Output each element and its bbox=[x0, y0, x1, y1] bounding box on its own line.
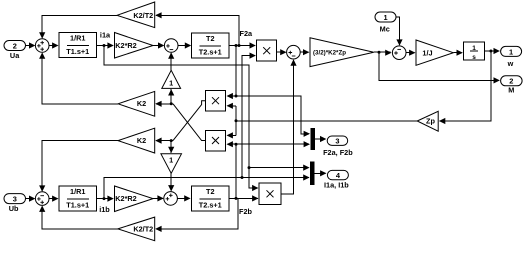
arrow into product XL input2 bbox=[227, 141, 233, 147]
svg-text:K2*R2: K2*R2 bbox=[115, 194, 137, 203]
wire w branch down to Zp bbox=[440, 51, 491, 121]
svg-text:T1.s+1: T1.s+1 bbox=[66, 47, 89, 56]
wire sum1a to TF1a bbox=[49, 45, 58, 47]
wire K2 lower output to sum1b top bbox=[42, 141, 118, 191]
arrow into triangle 1b bbox=[168, 147, 174, 153]
product X1 (F2a x i1b) bbox=[257, 40, 277, 61]
svg-text:M: M bbox=[508, 86, 514, 95]
product XU (upper middle) bbox=[206, 91, 226, 112]
node F2a branch up bbox=[238, 44, 241, 47]
wire Mc to sum4 top bbox=[396, 17, 400, 45]
product XB (bottom, F2b x i1a) bbox=[259, 183, 281, 205]
arrow into TF1b bbox=[52, 196, 58, 202]
svg-text:Zp: Zp bbox=[426, 117, 435, 126]
arrow into integrator bbox=[457, 50, 463, 56]
arrow into TF2a bbox=[185, 42, 191, 48]
wire F2b up branch bbox=[235, 144, 237, 198]
outport 4 (I1a, I1b) bbox=[327, 170, 348, 179]
wire crossing diagonal from product XL output up to upper line bbox=[173, 104, 206, 141]
arrow into product XL input1 bbox=[227, 132, 233, 138]
svg-text:Mc: Mc bbox=[380, 24, 390, 33]
wire K2 upper output to sum1a bottom bbox=[42, 54, 118, 104]
transfer fcn TF1a 1/R1 T1.s+1 bbox=[59, 33, 97, 58]
integrator 1/s bbox=[464, 42, 485, 60]
wire Ua to sum1a bbox=[26, 45, 35, 47]
svg-text:1: 1 bbox=[169, 155, 173, 164]
svg-text:T2: T2 bbox=[206, 34, 215, 43]
arrow into triangle 1a bbox=[168, 89, 174, 95]
wire sum2b to TF2b bbox=[177, 197, 189, 199]
transfer fcn TF2b T2 T2.s+1 bbox=[192, 186, 230, 211]
gain (3/2)*K2*Zp torque bbox=[310, 38, 374, 67]
svg-text:T2.s+1: T2.s+1 bbox=[199, 201, 222, 210]
transfer fcn TF2a T2 T2.s+1 bbox=[192, 33, 230, 58]
product XL (lower middle) bbox=[206, 130, 226, 151]
wire F2b down branch to K2/T2b bbox=[156, 198, 238, 229]
svg-text:w: w bbox=[507, 59, 514, 68]
svg-text:F2a, F2b: F2a, F2b bbox=[323, 148, 353, 157]
gain K2 upper bbox=[118, 91, 155, 116]
sum2b bbox=[164, 192, 178, 206]
arrow into product XU input1 bbox=[227, 93, 233, 99]
wire sum1b to TF1b bbox=[49, 198, 58, 200]
arrow into sum3 left bbox=[280, 49, 286, 55]
arrow into product X1 input1 bbox=[250, 42, 256, 48]
wire sum2a bottom input from triangle 1a bbox=[170, 53, 172, 70]
arrow into K2 lower bbox=[155, 138, 161, 144]
transfer fcn TF1b 1/R1 T1.s+1 bbox=[59, 186, 97, 211]
arrow into outport w bbox=[494, 48, 500, 54]
arrow into K2/T2a bbox=[155, 12, 161, 18]
gain Zp bbox=[417, 111, 438, 131]
svg-text:I1a, I1b: I1a, I1b bbox=[324, 180, 349, 189]
arrow into sum4 left bbox=[385, 50, 391, 56]
node Zp line bbox=[235, 119, 238, 122]
wire F2b to product XB input2 bbox=[229, 197, 258, 199]
wire F2a jog to mux1 input1 bbox=[236, 96, 309, 134]
sum4 bbox=[392, 46, 406, 60]
arrow into K2/T2b bbox=[155, 226, 161, 232]
svg-text:1/R1: 1/R1 bbox=[70, 187, 85, 196]
arrow into sum1b bottom bbox=[39, 206, 45, 212]
svg-text:F2a: F2a bbox=[240, 29, 254, 38]
wire torque gain to sum4 bbox=[374, 51, 391, 53]
arrow into K2*R2a bbox=[107, 42, 113, 48]
arrow into sum2a bottom bbox=[168, 52, 174, 58]
svg-text:T2: T2 bbox=[206, 187, 215, 196]
svg-text:T1.s+1: T1.s+1 bbox=[66, 201, 89, 210]
node F2b bbox=[235, 197, 238, 200]
node torque M bbox=[378, 51, 381, 54]
arrow into sum2b top bbox=[168, 185, 174, 191]
svg-text:3: 3 bbox=[13, 195, 17, 204]
product X1 cross glyph bbox=[263, 47, 270, 54]
svg-text:2: 2 bbox=[509, 77, 513, 86]
node i1b bbox=[103, 197, 106, 200]
wire 1/J to integrator bbox=[453, 52, 461, 54]
wire i1a to mux2 input1 bbox=[249, 167, 309, 169]
arrow into TF2b bbox=[184, 195, 190, 201]
svg-text:2: 2 bbox=[13, 41, 17, 50]
wire crossing diagonal from product XU output down to lower line bbox=[173, 101, 206, 141]
sum1b bbox=[35, 192, 49, 206]
arrow into sum1a bottom bbox=[39, 52, 45, 58]
arrow into gain Zp bbox=[439, 118, 445, 124]
svg-text:s: s bbox=[472, 54, 476, 61]
wire F2b to mux1 input2 bbox=[236, 143, 309, 145]
sum2a bbox=[164, 39, 178, 53]
wire product X1 to sum3 bbox=[277, 51, 285, 53]
wire K2/T2a output to sum1a top bbox=[42, 15, 117, 37]
outport 1 (w) bbox=[501, 46, 522, 56]
svg-text:3: 3 bbox=[335, 136, 339, 145]
arrow into TF1a bbox=[52, 42, 58, 48]
gain K2 lower bbox=[118, 128, 155, 153]
wire sum2a to TF2a bbox=[178, 45, 190, 47]
arrow into outport 3 bbox=[320, 136, 326, 142]
gain 1/J bbox=[416, 40, 453, 65]
wire K2*R2a to sum2a bbox=[153, 45, 163, 47]
product XL cross glyph bbox=[212, 137, 219, 144]
arrow into sum1b left bbox=[29, 196, 35, 202]
svg-text:i1b: i1b bbox=[99, 205, 110, 214]
arrow into product XB input2 bbox=[252, 195, 258, 201]
wire K2*R2b to sum2b bbox=[153, 198, 163, 200]
svg-text:(3/2)*K2*Zp: (3/2)*K2*Zp bbox=[313, 49, 346, 56]
wire F2b to product XL input2 bbox=[227, 143, 236, 145]
arrow into sum1b top bbox=[39, 185, 45, 191]
wire Zp to product XL input1 bbox=[227, 134, 236, 136]
wire i1b TF1b to K2*R2b bbox=[97, 198, 113, 200]
arrow into product X1 input2 bbox=[250, 53, 256, 59]
arrow into mux1 input1 bbox=[304, 131, 310, 137]
svg-text:Ub: Ub bbox=[9, 204, 19, 213]
arrow into mux1 input2 bbox=[304, 141, 310, 147]
wire product XB output to sum3 bottom bbox=[281, 60, 294, 194]
sum1a bbox=[35, 39, 49, 53]
wire triangle 1a input from node bbox=[170, 89, 172, 104]
arrow into product XB input1 bbox=[252, 185, 258, 191]
svg-text:1/J: 1/J bbox=[422, 48, 432, 57]
wire upper crossing line to K2 upper bbox=[156, 103, 173, 105]
svg-text:K2/T2: K2/T2 bbox=[133, 225, 153, 234]
arrow into product XU input2 bbox=[227, 103, 233, 109]
node upper crossing to triangle 1a bbox=[170, 102, 173, 105]
wire F2a up branch to K2/T2a bbox=[156, 15, 239, 45]
arrow into sum3 bottom bbox=[290, 59, 296, 65]
wire i1b branch up to mux2 input2 bbox=[104, 178, 309, 199]
gain K2/T2 lower bbox=[118, 217, 155, 241]
wire mux2 to outport 4 bbox=[314, 172, 325, 174]
product XU cross glyph bbox=[212, 97, 219, 104]
node F2a branch down bbox=[235, 44, 238, 47]
svg-text:K2/T2: K2/T2 bbox=[133, 11, 153, 20]
arrow into mux2 input2 bbox=[303, 174, 309, 180]
wire i1b riser to product X1 input2 bbox=[242, 56, 255, 178]
wire Zp output to product column bbox=[236, 120, 417, 122]
arrow into K2*R2b bbox=[107, 196, 113, 202]
inport 1 (Mc) bbox=[375, 12, 396, 22]
wire sum4 to 1/J bbox=[406, 52, 415, 54]
triangle gain 1 up (channel a) bbox=[162, 70, 181, 88]
product XB cross glyph bbox=[267, 190, 274, 197]
arrow into sum2b left bbox=[157, 195, 163, 201]
wire Zp to product XU input2 bbox=[227, 105, 236, 107]
arrow into outport 4 bbox=[320, 170, 326, 176]
wire F2a to product XU input1 bbox=[227, 95, 236, 97]
triangle gain 1 down (channel b) bbox=[161, 154, 182, 174]
svg-text:F2b: F2b bbox=[239, 207, 253, 216]
wire K2/T2b output to sum1b bottom bbox=[42, 206, 118, 229]
wire F2a to product X1 bbox=[229, 45, 255, 47]
arrow into sum1a top bbox=[39, 32, 45, 38]
wire sum3 to torque gain bbox=[300, 51, 308, 53]
svg-text:1/R1: 1/R1 bbox=[70, 33, 85, 42]
arrow into K2 upper bbox=[155, 101, 161, 107]
sum3 bbox=[287, 45, 301, 59]
node w bbox=[489, 50, 492, 53]
svg-text:Ua: Ua bbox=[10, 51, 20, 60]
svg-text:T2.s+1: T2.s+1 bbox=[199, 48, 222, 57]
mux2 bbox=[310, 162, 314, 185]
wire F2a down branch bbox=[235, 46, 237, 97]
node lower crossing to triangle 1b bbox=[170, 139, 173, 142]
node i1b riser bbox=[241, 176, 244, 179]
gain K2*R2 a bbox=[115, 33, 154, 59]
wire triangle 1b input from node bbox=[170, 141, 172, 153]
wire mux1 to outport 3 bbox=[314, 138, 325, 140]
wire M branch to outport M bbox=[379, 52, 499, 80]
inport 3 (Ub) bbox=[4, 194, 26, 204]
svg-text:K2: K2 bbox=[137, 99, 146, 108]
wire Zp branch vertical bbox=[235, 106, 237, 136]
outport 2 (M) bbox=[501, 76, 522, 86]
node i1a mux2 bbox=[248, 166, 251, 169]
svg-text:1: 1 bbox=[383, 13, 387, 22]
arrow into 1/J bbox=[409, 50, 415, 56]
arrow into mux2 input1 bbox=[303, 165, 309, 171]
arrow into torque gain bbox=[303, 49, 309, 55]
wire i1a branch down and right bbox=[104, 46, 258, 189]
arrow into sum2a left bbox=[158, 42, 164, 48]
gain K2/T2 upper bbox=[117, 2, 155, 28]
node i1a bbox=[103, 44, 106, 47]
svg-text:1: 1 bbox=[509, 47, 513, 56]
arrow into sum1a left bbox=[29, 42, 35, 48]
svg-text:1: 1 bbox=[169, 78, 173, 87]
node F2b mux1 bbox=[235, 143, 238, 146]
wire lower crossing line to K2 lower bbox=[156, 140, 173, 142]
gain K2*R2 b bbox=[115, 186, 154, 212]
mux1 bbox=[311, 129, 314, 150]
svg-text:i1a: i1a bbox=[100, 30, 111, 39]
wire i1a TF1a to K2*R2 bbox=[97, 45, 113, 47]
outport 3 (F2a, F2b) bbox=[327, 136, 348, 145]
wire triangle 1b output to sum2b top bbox=[170, 173, 172, 191]
inport 2 (Ua) bbox=[4, 41, 26, 51]
node F2a jog bbox=[235, 95, 238, 98]
arrow into sum4 top bbox=[396, 39, 402, 45]
wire integrator to outport w bbox=[485, 50, 499, 52]
svg-text:K2*R2: K2*R2 bbox=[115, 41, 137, 50]
arrow into outport M bbox=[494, 77, 500, 83]
svg-text:K2: K2 bbox=[137, 136, 146, 145]
wire Ub to sum1b bbox=[26, 198, 35, 200]
